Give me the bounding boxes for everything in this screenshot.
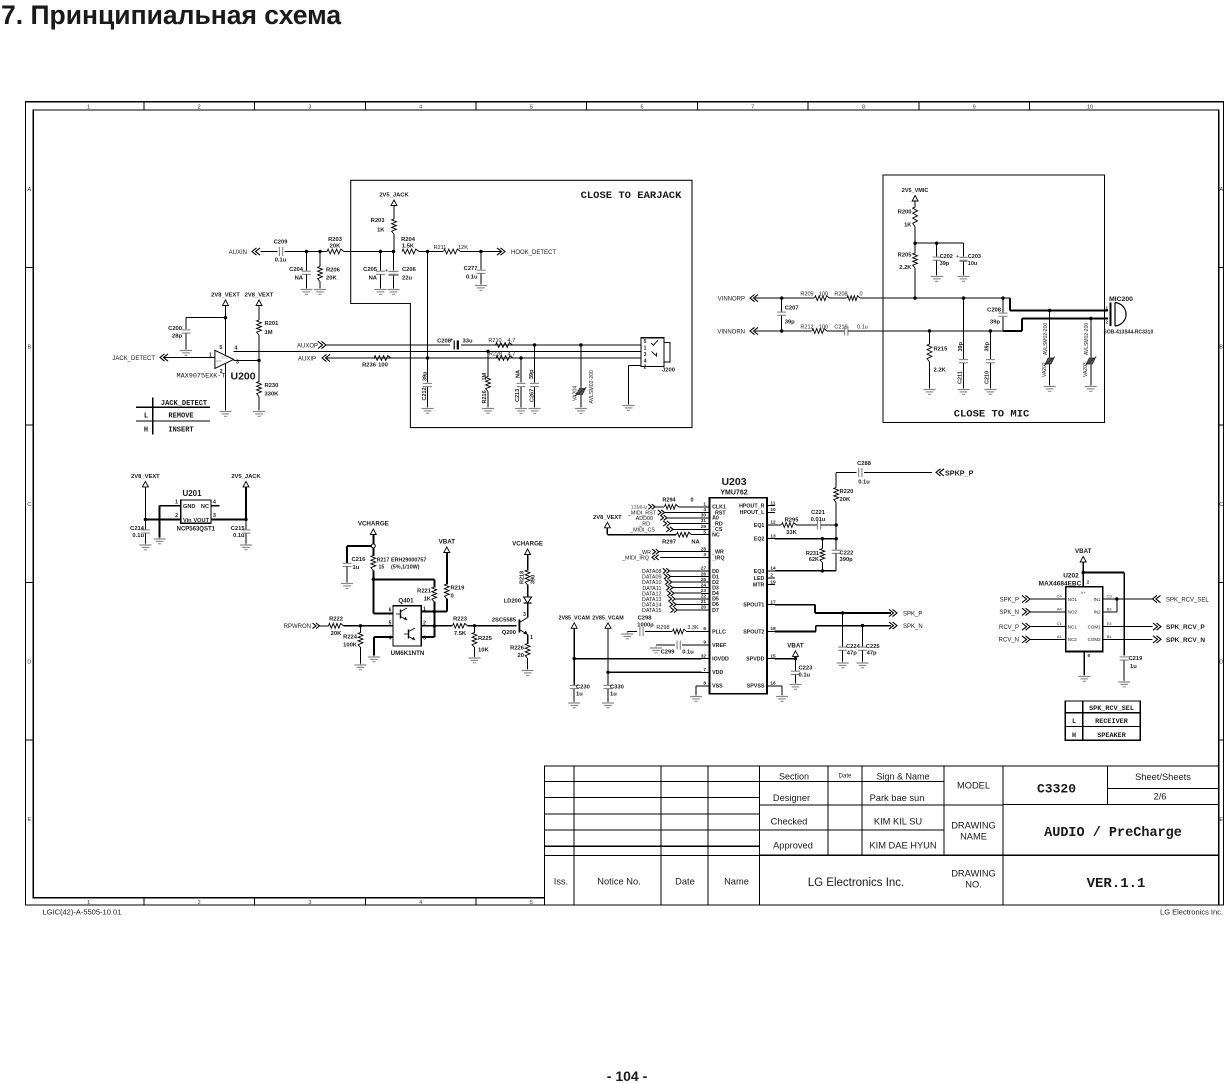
wire C222 to EQ3 — [835, 554, 837, 571]
svg-text:3: 3 — [644, 352, 647, 358]
svg-text:CLOSE TO EARJACK: CLOSE TO EARJACK — [581, 190, 683, 202]
svg-text:R211: R211 — [434, 245, 447, 251]
svg-text:VSS: VSS — [712, 684, 723, 690]
IC U201 box — [181, 500, 211, 523]
wire C203 down — [963, 243, 965, 257]
svg-text:1K: 1K — [377, 228, 385, 234]
doc code bottom-left — [43, 908, 122, 917]
ground VREF — [650, 647, 662, 653]
svg-text:C207: C207 — [785, 306, 799, 312]
wire SPVSS to ground — [775, 686, 782, 695]
resistor R201 (1M) — [257, 320, 280, 336]
svg-text:R294: R294 — [662, 497, 676, 503]
U201 pin3 VOUT — [193, 513, 246, 524]
resistor R231 (62K) — [806, 549, 825, 564]
svg-text:4: 4 — [419, 104, 422, 110]
net AUXIN — [229, 248, 260, 256]
resistor R209 (100) — [800, 292, 829, 301]
CLOSE TO EARJACK block box — [351, 180, 692, 427]
jack pin 2 — [644, 364, 647, 370]
svg-text:2: 2 — [198, 900, 201, 906]
svg-text:1u: 1u — [610, 692, 617, 698]
wire U201 GND to ground — [160, 506, 173, 538]
svg-text:Date: Date — [839, 774, 852, 780]
wire VBAT branch to C219 — [1083, 573, 1124, 656]
capacitor C221 (0.01u) — [811, 510, 826, 530]
jack pin 3 — [644, 352, 647, 358]
svg-text:27: 27 — [701, 566, 707, 572]
svg-text:VREF: VREF — [712, 643, 727, 649]
capacitor C223 (0.1u) — [791, 666, 813, 679]
svg-text:LD200: LD200 — [504, 599, 521, 605]
wire R220 to EQ2 — [835, 503, 837, 550]
wire opamp gnd — [225, 364, 227, 410]
wire VA203 to ground — [1090, 365, 1092, 386]
wire to R217 — [372, 548, 374, 556]
svg-text:R222: R222 — [329, 616, 343, 622]
svg-text:C219: C219 — [834, 325, 847, 331]
svg-text:C219: C219 — [1129, 656, 1144, 662]
power VCHARGE (R217) — [358, 521, 389, 535]
ground C223 — [790, 683, 802, 689]
jack pin 5 — [644, 339, 647, 345]
wire R200 to node — [914, 227, 916, 254]
table row L RECEIVER — [1072, 718, 1129, 726]
svg-text:8: 8 — [862, 104, 865, 110]
power 2V8_VEXT (R201) — [245, 293, 274, 306]
wire R294 to CLK1 — [679, 506, 702, 508]
wire VINNORP step to mic — [1010, 298, 1108, 310]
svg-text:39p: 39p — [785, 319, 795, 325]
svg-text:SPOUT1: SPOUT1 — [743, 603, 764, 609]
wire VA202 down — [1049, 311, 1051, 358]
power 2V85_VCAM (rail1) — [558, 615, 590, 628]
svg-text:SPK_RCV_SEL: SPK_RCV_SEL — [1089, 705, 1134, 713]
ground R226 — [522, 669, 534, 675]
node R205 bottom — [913, 296, 916, 299]
wire VINNORN step to mic — [1003, 319, 1108, 332]
wire down to C205 — [380, 252, 382, 271]
svg-text:AUXIP: AUXIP — [298, 356, 316, 362]
wire C203 to ground — [963, 262, 965, 276]
wire C216 to ground — [346, 567, 348, 582]
SPK_RCV_SEL table — [1065, 701, 1140, 740]
wire R218 to LD200 — [527, 585, 529, 597]
wire C288 to SPKP_P — [864, 471, 932, 473]
wire SPKP vertical — [835, 472, 837, 487]
svg-text:390p: 390p — [840, 557, 854, 563]
ground C206 — [388, 288, 400, 294]
title block KIM KIL SU — [874, 817, 922, 827]
svg-text:5: 5 — [530, 900, 533, 906]
svg-text:C208: C208 — [987, 308, 1002, 314]
wire R215 to ground — [929, 362, 931, 388]
svg-text:0.1u: 0.1u — [466, 275, 478, 281]
wire R216 down — [487, 351, 489, 377]
svg-text:20K: 20K — [331, 631, 342, 637]
svg-text:A1: A1 — [1057, 634, 1063, 639]
svg-text:JACK_DETECT: JACK_DETECT — [161, 400, 207, 408]
svg-text:A4: A4 — [1057, 606, 1063, 611]
wire to C288 — [836, 471, 856, 473]
svg-text:4: 4 — [213, 500, 216, 506]
svg-text:39p: 39p — [958, 341, 964, 351]
svg-text:62K: 62K — [809, 557, 819, 563]
node R221 branch — [372, 578, 375, 581]
ground VA203 — [1085, 385, 1097, 391]
capacitor C298 (1000p) — [637, 615, 654, 636]
svg-text:A: A — [27, 187, 31, 193]
U201 pin4 NC — [201, 500, 220, 511]
svg-text:C3: C3 — [1107, 594, 1113, 599]
svg-text:OUT: OUT — [216, 359, 222, 363]
svg-text:NA: NA — [691, 540, 700, 546]
svg-text:R206: R206 — [326, 268, 341, 274]
svg-text:UM6K1NTN: UM6K1NTN — [391, 650, 425, 657]
wire branch to R221 — [373, 579, 434, 587]
svg-text:1: 1 — [423, 607, 426, 613]
wire C204 to ground — [305, 275, 307, 288]
label SOB-413S44-RC3310 — [1104, 330, 1154, 336]
U202 right pins — [1088, 594, 1113, 643]
capacitor C208 (39p) mic — [987, 308, 1007, 326]
svg-text:C: C — [1219, 502, 1223, 508]
svg-text:5: 5 — [644, 339, 647, 345]
ground C205 — [375, 288, 387, 294]
svg-text:C330: C330 — [610, 685, 624, 691]
capacitor C288 (0.1u) — [857, 461, 872, 485]
node C208m top — [1001, 296, 1004, 299]
capacitor C206 (22u) — [385, 267, 416, 282]
ground C214 — [139, 544, 151, 550]
svg-text:R210: R210 — [488, 338, 501, 344]
net SPK_RCV_P — [1153, 623, 1205, 631]
wire R203 into box — [344, 251, 377, 253]
ground C204 — [300, 288, 312, 294]
wire IN1 to SPK_RCV_SEL — [1113, 598, 1153, 600]
svg-text:VDD: VDD — [712, 670, 723, 676]
wire 2V8_VEXT to R297 — [607, 528, 676, 535]
wire R201 to R230 — [258, 335, 260, 382]
label U202 — [1063, 573, 1079, 580]
capacitor C277 (0.1u) — [464, 266, 486, 281]
resistor R297 (NA) — [662, 532, 700, 545]
svg-text:KIM DAE HYUN: KIM DAE HYUN — [869, 841, 936, 851]
node EQ2 junction — [835, 537, 838, 540]
wire rail2 down — [607, 628, 609, 685]
wire C202 to ground — [936, 261, 938, 276]
wire C223 to ground — [795, 675, 797, 683]
wire EQ1 to R295 — [775, 524, 781, 526]
net SPKP_P — [936, 468, 974, 477]
wire C210 down — [989, 331, 991, 359]
wire C207 down — [781, 298, 783, 312]
net VINNORN — [717, 327, 758, 335]
title block KIM DAE HYUN — [869, 841, 936, 851]
wire VA202 to ground — [1049, 365, 1051, 386]
node opamp pin3 junction — [257, 359, 260, 362]
net _MIDI_IRQ — [621, 555, 702, 562]
svg-text:20: 20 — [701, 605, 707, 611]
svg-text:SOB-413S44-RC3310: SOB-413S44-RC3310 — [1104, 330, 1154, 336]
svg-text:DATA15: DATA15 — [642, 608, 662, 614]
JACK_DETECT table header — [161, 400, 207, 408]
wire EQ3 line — [775, 570, 836, 572]
MIC200 pin 2 — [1105, 320, 1108, 325]
svg-text:_MIDI_IRQ: _MIDI_IRQ — [621, 556, 649, 562]
svg-text:2: 2 — [644, 364, 647, 370]
wire to C200 — [186, 317, 226, 319]
title block Designer — [773, 793, 810, 803]
svg-text:EQ3: EQ3 — [754, 569, 765, 575]
wire 2V8_VEXT down — [144, 487, 146, 529]
resistor R225 (10K) — [472, 633, 493, 654]
svg-text:AVLSM02-200: AVLSM02-200 — [1043, 323, 1049, 355]
svg-text:B: B — [1219, 345, 1223, 351]
svg-text:Designer: Designer — [773, 793, 810, 803]
page title — [1, 0, 341, 30]
svg-text:Name: Name — [724, 877, 749, 887]
svg-text:SPK_N: SPK_N — [903, 624, 923, 630]
svg-text:C: C — [27, 502, 31, 508]
power VCHARGE (LD200) — [512, 541, 543, 555]
svg-text:2V85_VCAM: 2V85_VCAM — [592, 615, 624, 621]
Q401 internal transistor B — [404, 628, 415, 640]
wire VCC rail — [225, 306, 227, 355]
svg-text:SPVSS: SPVSS — [747, 684, 765, 690]
svg-text:IOVDD: IOVDD — [712, 657, 729, 663]
wire R231 stubs — [821, 539, 823, 571]
wire COM1 out — [1113, 626, 1153, 628]
wire VA203 down — [1090, 319, 1092, 358]
svg-text:U202: U202 — [1063, 573, 1079, 580]
wire C200 down — [185, 318, 187, 330]
wire VINNORN line a — [755, 330, 812, 332]
svg-text:(5%,1/10W): (5%,1/10W) — [391, 565, 420, 571]
svg-text:2V8_VEXT: 2V8_VEXT — [593, 515, 622, 521]
svg-text:28: 28 — [701, 546, 707, 552]
svg-text:Q200: Q200 — [502, 630, 516, 636]
power VBAT (SPVDD) — [787, 642, 804, 656]
svg-text:390: 390 — [531, 575, 537, 584]
ground C216 — [341, 582, 353, 588]
title block grid — [545, 766, 1219, 905]
svg-text:R298: R298 — [656, 625, 669, 631]
svg-text:6: 6 — [389, 608, 392, 614]
svg-text:C216: C216 — [352, 557, 367, 563]
svg-text:2V8_VEXT: 2V8_VEXT — [245, 293, 274, 299]
ground C212 — [422, 407, 434, 413]
wire R223 to Q200 — [468, 625, 517, 627]
wire C212 down — [427, 358, 429, 383]
wire C208 to jack — [461, 344, 641, 346]
ground U202 — [1078, 675, 1090, 681]
svg-text:_IRQ: _IRQ — [711, 555, 724, 561]
svg-text:VINNORP: VINNORP — [718, 297, 745, 303]
svg-text:+: + — [385, 269, 388, 274]
node R216 junction — [486, 350, 489, 353]
svg-text:Q401: Q401 — [398, 597, 414, 604]
jack pin 4 — [644, 358, 647, 364]
svg-text:V+: V+ — [1081, 590, 1087, 595]
svg-text:330K: 330K — [265, 392, 280, 398]
ground VA202 — [1044, 385, 1056, 391]
svg-text:C210: C210 — [984, 371, 990, 384]
ground C203 — [958, 275, 970, 281]
svg-text:R297: R297 — [662, 540, 676, 546]
svg-text:1: 1 — [703, 502, 706, 508]
capacitor C224 (47p) — [838, 644, 860, 657]
node C200 tap — [224, 316, 227, 319]
wire C219 to ground — [1123, 660, 1125, 680]
svg-text:E: E — [27, 817, 31, 823]
svg-text:28p: 28p — [172, 334, 182, 340]
svg-text:C298: C298 — [638, 615, 653, 621]
wire R230 to ground — [258, 397, 260, 411]
svg-text:RECEIVER: RECEIVER — [1095, 718, 1129, 726]
U201 pin2 Vin — [175, 513, 192, 524]
svg-text:SPEAKER: SPEAKER — [1097, 732, 1126, 740]
svg-text:9: 9 — [973, 104, 976, 110]
ground PLLC — [621, 632, 633, 639]
svg-text:1: 1 — [175, 500, 178, 506]
svg-text:C212: C212 — [422, 387, 428, 400]
svg-text:H: H — [1072, 732, 1076, 740]
net ADD00 — [636, 515, 702, 522]
svg-text:7: 7 — [703, 667, 706, 673]
svg-text:C223: C223 — [799, 666, 814, 672]
wire jack pin2 to ground — [629, 366, 641, 405]
node AUXIP/C212 junction — [426, 356, 429, 359]
wire C213 down — [520, 358, 522, 383]
wire R205 to VINNORP line — [914, 268, 916, 298]
IC U202 box — [1066, 587, 1103, 652]
wire to R223 — [434, 625, 452, 627]
wire VBAT stub — [795, 656, 797, 671]
svg-text:C221: C221 — [811, 510, 826, 516]
svg-text:VCHARGE: VCHARGE — [512, 541, 543, 548]
resistor R298 (3.3K) — [656, 625, 699, 634]
svg-text:7. Принципиальная схема: 7. Принципиальная схема — [1, 0, 341, 30]
net SPK_RCV_N — [1153, 636, 1205, 644]
net 13MHz — [631, 504, 655, 511]
svg-text:10u: 10u — [968, 261, 977, 267]
svg-text:Vin: Vin — [183, 518, 192, 524]
svg-text:24: 24 — [701, 582, 707, 588]
resistor R219 (0) — [444, 584, 465, 600]
varistor VA202 AVLSM02-200 — [1042, 323, 1055, 377]
svg-text:R205: R205 — [898, 253, 913, 259]
power 2V5_JACK (U201 out) — [231, 474, 261, 487]
svg-text:1K: 1K — [904, 223, 912, 229]
varistor VA204 AVLSM02-200 — [573, 370, 596, 403]
wire R215 down — [929, 331, 931, 345]
node Q401 pin1 — [433, 610, 436, 613]
svg-text:2V8_VEXT: 2V8_VEXT — [131, 474, 160, 480]
svg-text:1M: 1M — [265, 330, 273, 336]
node C210 top — [989, 329, 992, 332]
power 2V8_VEXT (U203 NC) — [593, 515, 622, 528]
resistor R220 (20K) — [834, 488, 854, 504]
resistor R200 (1K) — [898, 207, 918, 229]
svg-text:1K: 1K — [424, 597, 432, 603]
title block Date header — [839, 774, 852, 780]
wire VREF gnd to C299 — [656, 644, 675, 646]
svg-text:3: 3 — [703, 552, 706, 558]
ground C230 — [568, 702, 580, 708]
wire R224 to ground — [360, 647, 362, 664]
svg-text:0.1u: 0.1u — [858, 479, 870, 485]
svg-text:15: 15 — [379, 565, 385, 571]
svg-text:B1: B1 — [1107, 634, 1113, 639]
wire C202 down — [936, 243, 938, 257]
svg-text:5: 5 — [530, 104, 533, 110]
svg-text:EQ1: EQ1 — [754, 523, 765, 529]
node VA204 junction — [579, 343, 582, 346]
svg-text:Sign & Name: Sign & Name — [876, 772, 929, 782]
wire C224 down — [842, 613, 844, 647]
power 2V5_VMIC — [902, 188, 929, 201]
svg-text:C202: C202 — [940, 254, 953, 260]
wire C225 down — [862, 626, 864, 647]
node mic bias — [913, 242, 916, 245]
svg-text:2SC5585: 2SC5585 — [492, 618, 517, 624]
node VA202 tap — [1048, 309, 1051, 312]
capacitor C204 (NA) — [289, 267, 311, 282]
net AUXOP — [297, 341, 326, 349]
svg-text:R212: R212 — [800, 325, 813, 331]
svg-text:R236: R236 — [362, 363, 377, 369]
wire C211 down — [963, 298, 965, 359]
CLOSE TO MIC block box — [883, 175, 1104, 422]
svg-text:C203: C203 — [968, 254, 981, 260]
power 2V8_VEXT (opamp VCC) — [211, 293, 240, 306]
label ERH29000757 — [391, 558, 426, 571]
wire C298 to R298 — [645, 631, 672, 633]
svg-text:19: 19 — [770, 579, 776, 585]
svg-text:3: 3 — [523, 612, 526, 618]
capacitor C219 (0.1u) mic — [834, 325, 867, 336]
svg-text:VOUT: VOUT — [193, 518, 209, 524]
svg-text:R200: R200 — [898, 210, 912, 216]
svg-text:C204: C204 — [289, 267, 304, 273]
IC U203 box — [710, 498, 767, 694]
capacitor C208 (33u) — [437, 338, 473, 350]
svg-text:0: 0 — [451, 594, 454, 600]
microphone MIC200 — [1109, 296, 1133, 326]
title block LG Electronics Inc. — [808, 877, 905, 889]
svg-text:VBAT: VBAT — [787, 642, 804, 649]
wire Vin to U201 — [145, 518, 180, 520]
svg-text:C222: C222 — [840, 551, 854, 557]
node R231 bottom — [821, 569, 824, 572]
svg-text:E3: E3 — [1107, 621, 1113, 626]
label NCP563QST1 — [177, 527, 216, 533]
wire Q200 emitter to R226 — [527, 635, 529, 645]
wire HOOK junction down to AUXIP line — [427, 252, 429, 359]
wire opamp pin3 — [234, 359, 259, 361]
svg-text:47p: 47p — [847, 651, 857, 657]
U203 right pins — [739, 500, 776, 689]
svg-text:1: 1 — [530, 635, 533, 641]
ground U200 — [220, 410, 232, 416]
label Q401 — [398, 597, 414, 604]
svg-text:20: 20 — [518, 653, 524, 659]
resistor R211 (12K) — [434, 245, 469, 254]
svg-text:6: 6 — [703, 626, 706, 632]
svg-text:Park bae sun: Park bae sun — [870, 793, 925, 803]
net SPK_N (U202) — [999, 608, 1055, 616]
